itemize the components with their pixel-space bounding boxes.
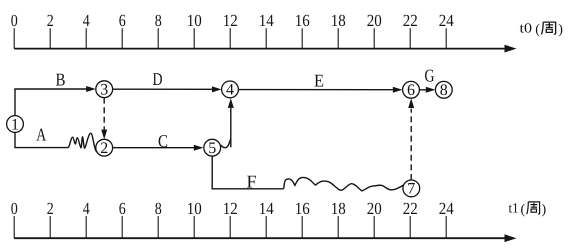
svg-text:6: 6 — [119, 199, 126, 218]
hook curve node 5 to vertical wire — [221, 139, 231, 148]
wire B from node 1 up and right to node 3 — [15, 89, 87, 116]
svg-text:B: B — [56, 69, 66, 89]
svg-text:6: 6 — [119, 11, 126, 30]
node 7 — [403, 180, 420, 197]
node digits — [11, 82, 448, 198]
svg-text:0: 0 — [11, 199, 18, 218]
svg-text:2: 2 — [47, 199, 54, 218]
dashed wire node 7 to node 6 — [410, 109, 412, 180]
svg-text:3: 3 — [100, 82, 108, 99]
svg-text:8: 8 — [155, 199, 162, 218]
wire C node 2 to node 5 — [113, 147, 194, 149]
svg-text:14: 14 — [259, 11, 274, 30]
arrowhead into node 4 — [212, 86, 222, 92]
arrowhead into node 5 — [194, 145, 204, 151]
top axis numbers — [11, 11, 454, 30]
node 6 — [403, 81, 420, 98]
svg-text:(: ( — [521, 202, 526, 217]
svg-text:22: 22 — [403, 199, 418, 218]
svg-text:2: 2 — [100, 140, 108, 157]
node circles — [7, 81, 453, 197]
wire E node 4 to node 6 — [238, 89, 392, 91]
squiggle A into node 2 — [68, 133, 100, 152]
bottom axis numbers — [11, 199, 454, 218]
svg-text:20: 20 — [367, 199, 382, 218]
svg-text:A: A — [36, 125, 46, 145]
wire A from node 1 down and right — [15, 132, 68, 147]
svg-text:4: 4 — [226, 82, 234, 99]
node 5 — [204, 139, 221, 156]
svg-text:D: D — [153, 69, 163, 89]
bottom axis arrowhead — [505, 234, 517, 242]
wire from node 5 up to node 4 — [230, 108, 232, 148]
bottom axis t1 line — [14, 216, 516, 242]
svg-text:20: 20 — [367, 11, 382, 30]
top zhou glyph — [542, 22, 556, 34]
node 2 — [96, 139, 113, 156]
wire D node 3 to node 4 — [113, 88, 213, 90]
svg-text:8: 8 — [440, 82, 448, 99]
svg-text:t1: t1 — [509, 201, 519, 216]
node 1 — [7, 116, 24, 133]
arrowhead into node 6 bottom — [408, 98, 414, 108]
svg-text:12: 12 — [223, 11, 238, 30]
node 3 — [96, 81, 113, 98]
wire G node 6 to node 8 — [419, 89, 426, 91]
svg-text:1: 1 — [11, 116, 19, 133]
svg-text:10: 10 — [187, 11, 202, 30]
svg-text:18: 18 — [331, 199, 346, 218]
bottom zhou glyph — [527, 202, 540, 214]
svg-text:(: ( — [535, 23, 540, 38]
svg-text:6: 6 — [407, 82, 415, 99]
wire F from node 5 down and right — [212, 156, 283, 189]
squiggle F to node 7 — [284, 177, 404, 190]
arrowhead into node 6 — [393, 87, 403, 93]
svg-text:): ) — [558, 23, 563, 38]
svg-text:2: 2 — [47, 11, 54, 30]
svg-text:4: 4 — [83, 11, 90, 30]
svg-text:22: 22 — [403, 11, 418, 30]
svg-text:14: 14 — [259, 199, 274, 218]
svg-text:16: 16 — [295, 11, 310, 30]
svg-text:E: E — [314, 71, 324, 91]
node 8 — [435, 81, 452, 98]
bottom axis ticks — [14, 216, 446, 238]
svg-text:G: G — [425, 66, 435, 86]
arrowhead into node 3 — [86, 86, 96, 92]
arrowhead into node 2 top — [101, 130, 107, 140]
svg-text:24: 24 — [439, 199, 454, 218]
svg-text:0: 0 — [11, 11, 18, 30]
arrowhead into node 8 — [426, 87, 436, 93]
svg-text:8: 8 — [155, 11, 162, 30]
svg-text:18: 18 — [331, 11, 346, 30]
svg-text:7: 7 — [407, 181, 415, 198]
top axis ticks — [14, 28, 446, 48]
svg-text:4: 4 — [83, 199, 90, 218]
network edges — [15, 86, 435, 191]
svg-text:5: 5 — [208, 140, 216, 157]
svg-text:24: 24 — [439, 11, 454, 30]
svg-text:): ) — [542, 202, 547, 217]
top axis arrowhead — [505, 45, 517, 53]
svg-text:10: 10 — [187, 199, 202, 218]
bottom axis label t1(zhou) — [509, 201, 547, 217]
svg-text:F: F — [247, 172, 257, 192]
svg-text:t0: t0 — [520, 22, 533, 37]
arrowhead into node 4 bottom — [228, 98, 234, 108]
top axis label t0(zhou) — [520, 22, 564, 38]
top axis t0 line — [14, 48, 506, 50]
edge labels — [36, 66, 434, 192]
node 4 — [222, 81, 239, 98]
dashed wire node 3 to node 2 — [103, 98, 105, 132]
svg-text:C: C — [158, 131, 168, 151]
svg-text:12: 12 — [223, 199, 238, 218]
svg-text:16: 16 — [295, 199, 310, 218]
